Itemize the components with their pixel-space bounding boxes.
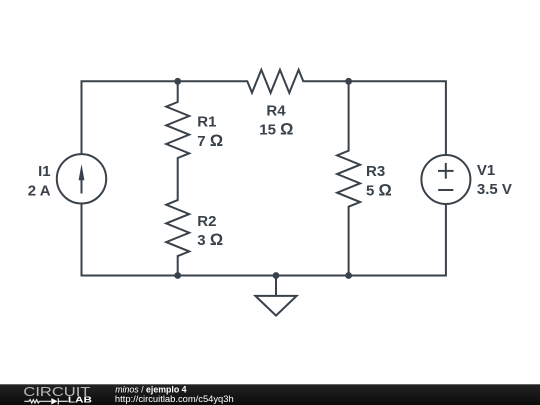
svg-text:R2: R2: [197, 213, 216, 230]
svg-text:LAB: LAB: [68, 395, 92, 405]
svg-text:15 Ω: 15 Ω: [259, 120, 293, 138]
svg-text:R3: R3: [366, 163, 385, 180]
svg-text:R4: R4: [266, 103, 286, 120]
svg-text:2 A: 2 A: [28, 182, 51, 199]
svg-text:V1: V1: [477, 162, 495, 179]
svg-text:3.5 V: 3.5 V: [477, 181, 512, 198]
svg-text:7 Ω: 7 Ω: [197, 132, 223, 150]
svg-text:5 Ω: 5 Ω: [366, 181, 392, 199]
svg-text:I1: I1: [38, 163, 51, 180]
svg-text:3 Ω: 3 Ω: [197, 231, 223, 249]
svg-text:R1: R1: [197, 114, 216, 131]
svg-text:http://circuitlab.com/c54yq3h: http://circuitlab.com/c54yq3h: [115, 393, 234, 404]
